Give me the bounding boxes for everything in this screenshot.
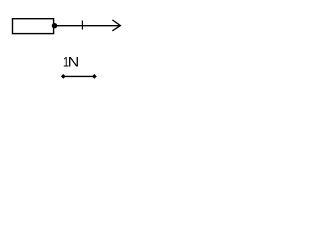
svg-text:N: N — [68, 54, 80, 70]
